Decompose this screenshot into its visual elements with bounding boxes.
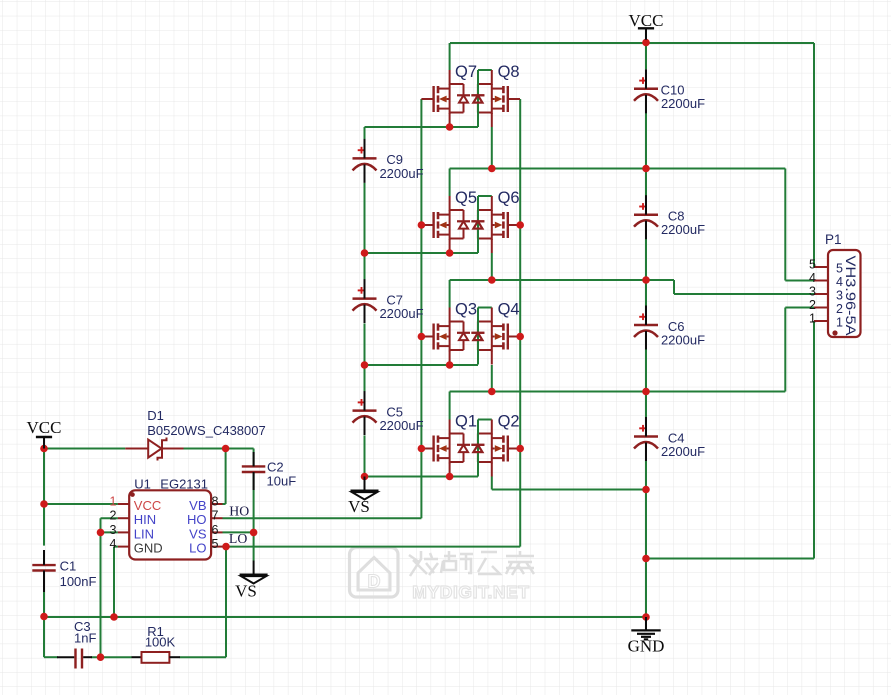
svg-text:5: 5: [836, 262, 843, 276]
wire HIN LIN chain: [100, 518, 102, 657]
wire C9 top lead: [364, 127, 366, 141]
svg-text:4: 4: [836, 275, 843, 289]
svg-text:LIN: LIN: [134, 526, 154, 541]
wire C1 bottom lead: [43, 590, 45, 617]
wire N7 row: [365, 476, 479, 478]
wire P1 pin1 row: [646, 558, 814, 560]
ground GND: [631, 617, 660, 639]
transistor Q8: [471, 70, 520, 127]
svg-text:3: 3: [836, 289, 843, 303]
svg-text:4: 4: [110, 537, 117, 551]
wire N5 to C5: [364, 365, 366, 392]
wire C6 to N6: [645, 350, 647, 392]
wire R1 to LO: [225, 547, 227, 658]
wire C7 to N5: [364, 324, 366, 366]
body diode Q2 overlay: [471, 445, 484, 452]
capacitor C5: [353, 391, 377, 435]
ground VS under C5: [351, 477, 379, 500]
svg-text:VH3.96-5A: VH3.96-5A: [843, 256, 858, 336]
ground VS under C2: [240, 561, 268, 584]
pin 2 stub U1: [118, 517, 129, 519]
wire Q6 bridge drop: [477, 196, 479, 253]
resistor R1: [132, 652, 181, 663]
junction at 44,616.5: [40, 613, 48, 621]
op-amp U1 EG2131 body: [129, 490, 211, 559]
wire Q7 drain riser: [449, 43, 451, 70]
svg-text:10uF: 10uF: [267, 474, 297, 489]
svg-text:VCC: VCC: [629, 11, 664, 30]
wire phase node N1 row: [365, 126, 479, 128]
transistor Q2: [471, 420, 520, 477]
wire LIN pin3: [101, 531, 118, 533]
wire C4 to GND: [645, 461, 647, 617]
wire Q6 src drop: [491, 253, 493, 280]
diode D1: [125, 438, 183, 461]
wire Q1 drain riser: [449, 392, 451, 420]
capacitor C7: [353, 279, 377, 323]
junction at 646,391.5: [642, 388, 650, 396]
svg-text:U1: U1: [134, 477, 151, 492]
svg-text:D: D: [368, 572, 381, 592]
junction at 520.2,225: [516, 221, 524, 229]
svg-text:VS: VS: [189, 526, 207, 541]
svg-text:VCC: VCC: [134, 498, 161, 513]
svg-text:3: 3: [110, 523, 117, 537]
svg-text:MYDIGIT.NET: MYDIGIT.NET: [412, 582, 529, 602]
pin 6 stub U1: [211, 531, 222, 533]
wire N6 row: [450, 391, 786, 393]
transistor Q7: [421, 70, 470, 127]
wire R1 to LO riser: [180, 656, 227, 658]
svg-text:2: 2: [836, 302, 843, 316]
capacitor C9: [353, 139, 377, 183]
junction at 520.2,336.5: [516, 333, 524, 341]
wire P1 pin3 jog: [673, 280, 675, 294]
svg-text:5: 5: [809, 258, 816, 272]
junction at 449.6,476.5: [446, 473, 454, 481]
svg-text:Q4: Q4: [498, 301, 520, 319]
svg-text:Q3: Q3: [455, 301, 477, 319]
svg-text:4: 4: [809, 271, 816, 285]
wire N3 row: [365, 252, 479, 254]
wire VCC to D1 anode: [44, 448, 125, 450]
wire Q2 src drop: [491, 477, 493, 490]
svg-text:Q7: Q7: [455, 63, 477, 81]
VCC symbol left: [36, 437, 52, 449]
VCC symbol top: [638, 28, 654, 40]
junction at 100.5,657.2: [97, 653, 105, 661]
svg-text:2200uF: 2200uF: [379, 166, 423, 181]
wire P1 pin4 col: [784, 169, 786, 281]
pin 2 stub P1: [814, 307, 828, 309]
body diode Q8 overlay: [471, 95, 484, 102]
wire bridge Q4: [478, 307, 492, 309]
junction at 449.6,253: [446, 249, 454, 257]
wire N2 to C8: [645, 169, 647, 196]
junction at 253.6,532.4: [250, 529, 258, 537]
svg-text:LO: LO: [229, 531, 247, 546]
svg-text:C2: C2: [267, 460, 284, 475]
pin 5 stub P1: [814, 266, 828, 268]
svg-text:VB: VB: [189, 498, 206, 513]
junction at 421.4,448.5: [418, 445, 426, 453]
junction at 646,617: [642, 613, 650, 621]
wire VCC col top: [645, 43, 647, 69]
wire HO gate chain: [420, 99, 422, 518]
wire N5 row: [365, 364, 479, 366]
pin 3 stub P1: [814, 293, 828, 295]
wire LO gate chain: [519, 99, 521, 547]
transistor Q3: [421, 308, 470, 365]
svg-text:2200uF: 2200uF: [661, 222, 705, 237]
svg-text:GND: GND: [628, 637, 665, 656]
wire VB jog: [223, 503, 226, 505]
junction at 44,448.5: [40, 445, 48, 453]
svg-text:1: 1: [110, 495, 117, 509]
svg-text:2200uF: 2200uF: [661, 332, 705, 347]
wire N2 row to P1-4: [450, 168, 786, 170]
pin 4 stub P1: [814, 280, 828, 282]
pin 1 stub U1: [118, 503, 129, 505]
wire N6 to C4: [645, 392, 647, 418]
junction at 226,546.6: [222, 543, 230, 551]
wire Q2 bridge drop: [477, 420, 479, 477]
wire Q4 bridge drop: [477, 308, 479, 365]
junction at 520.2,448.5: [516, 445, 524, 453]
svg-text:B0520WS_C438007: B0520WS_C438007: [147, 423, 266, 438]
capacitor C3: [57, 649, 92, 669]
svg-text:Q6: Q6: [498, 189, 520, 207]
junction at 491.8,391.5: [488, 388, 496, 396]
pin 4 stub U1: [118, 546, 129, 548]
wire HIN pin2: [101, 517, 118, 519]
svg-text:5: 5: [212, 537, 219, 551]
wire N4 row: [450, 279, 674, 281]
svg-text:2: 2: [809, 298, 816, 312]
wire LO net: [223, 546, 521, 548]
wire GND bottom rail: [44, 616, 646, 618]
wire bridge Q8: [478, 69, 492, 71]
svg-text:LO: LO: [189, 541, 206, 556]
pin 7 stub U1: [211, 517, 222, 519]
svg-text:P1: P1: [825, 232, 842, 247]
svg-text:VS: VS: [348, 497, 370, 516]
svg-text:C1: C1: [60, 558, 77, 573]
junction at 646,280: [642, 276, 650, 284]
svg-text:2200uF: 2200uF: [379, 306, 423, 321]
svg-text:100K: 100K: [145, 634, 176, 649]
svg-text:1: 1: [809, 312, 816, 326]
svg-text:3: 3: [809, 285, 816, 299]
junction at 44,504: [40, 500, 48, 508]
wire N4 to C6: [645, 280, 647, 306]
junction at 491.8,280: [488, 276, 496, 284]
svg-text:2: 2: [110, 509, 117, 523]
wire P1 pin5 riser: [813, 43, 815, 267]
pin 1 stub P1: [814, 320, 828, 322]
wire Q3 drain riser: [449, 280, 451, 308]
svg-text:7: 7: [212, 509, 219, 523]
capacitor C4: [634, 417, 658, 461]
capacitor C10: [634, 69, 658, 113]
body diode Q4 overlay: [471, 333, 484, 340]
svg-text:Q2: Q2: [498, 413, 520, 431]
svg-text:8: 8: [212, 495, 219, 509]
wire N8 row: [492, 489, 646, 491]
wire N4 to P1 pin3: [674, 293, 814, 295]
junction at 100.5,532.4: [97, 529, 105, 537]
wire VS pin6: [223, 531, 254, 533]
svg-text:HO: HO: [187, 512, 207, 527]
svg-text:Q5: Q5: [455, 189, 477, 207]
pin 3 stub U1: [118, 531, 129, 533]
wire VCC top rail: [450, 42, 814, 44]
junction at 421.4,336.5: [418, 333, 426, 341]
junction at 364.5,365: [361, 361, 369, 369]
svg-text:VCC: VCC: [27, 418, 62, 437]
svg-text:HO: HO: [229, 504, 249, 519]
junction at 364.5,476.5: [361, 473, 369, 481]
wire P1 pin4 lead: [785, 280, 814, 282]
svg-text:2200uF: 2200uF: [661, 444, 705, 459]
capacitor C1: [32, 550, 55, 592]
wire P1 pin1 drop: [813, 321, 815, 559]
wire C9 to N3: [364, 183, 366, 253]
watermark MYDIGIT.NET: [350, 548, 535, 603]
wire HO net: [223, 517, 422, 519]
junction at 646,489.5: [642, 486, 650, 494]
wire Q5 drain riser: [449, 169, 451, 197]
transistor Q1: [421, 420, 470, 477]
wire VCC left col: [43, 449, 45, 546]
pin 5 stub U1: [211, 546, 222, 548]
pin 8 stub U1: [211, 503, 222, 505]
wire Q4 src drop: [491, 365, 493, 392]
wire bridge Q2: [478, 419, 492, 421]
junction at 449.6,127: [446, 123, 454, 131]
svg-text:Q8: Q8: [498, 63, 520, 81]
wire pin4 to GND rail: [113, 547, 115, 617]
junction at 364.5,253: [361, 249, 369, 257]
wire C3 to R1: [91, 656, 132, 658]
svg-text:100nF: 100nF: [60, 574, 97, 589]
wire C3 left row: [44, 656, 58, 658]
svg-text:1nF: 1nF: [74, 631, 96, 646]
body diode Q6 overlay: [471, 221, 484, 228]
junction at 491.8,168.5: [488, 165, 496, 173]
capacitor C8: [634, 195, 658, 239]
wire N3 to C7: [364, 253, 366, 281]
junction at 646,42.5: [642, 39, 650, 47]
svg-text:Q1: Q1: [455, 413, 477, 431]
junction at 646,168.5: [642, 165, 650, 173]
capacitor C2: [242, 452, 265, 490]
wire C10 to N2: [645, 113, 647, 169]
wire C3 down leg: [43, 617, 45, 657]
svg-text:2200uF: 2200uF: [379, 418, 423, 433]
wire bridge Q6: [478, 195, 492, 197]
transistor Q4: [471, 308, 520, 365]
junction at 449.6,365: [446, 361, 454, 369]
junction at 421.4,225: [418, 221, 426, 229]
wire D1 cathode to C2: [184, 448, 254, 450]
wire C5 to N7: [364, 436, 366, 477]
capacitor C6: [634, 306, 658, 350]
wire Q8 bridge drop: [477, 70, 479, 127]
svg-text:1: 1: [836, 316, 843, 330]
wire C8 to N4: [645, 239, 647, 280]
junction at 114,617: [110, 613, 118, 621]
connector P1 body: [828, 250, 861, 337]
svg-text:GND: GND: [134, 541, 163, 556]
junction at 225.6,448.5: [222, 445, 230, 453]
wire C2 to VS: [253, 472, 255, 561]
svg-text:EG2131: EG2131: [160, 477, 208, 492]
wire P1 pin2 lead: [785, 307, 814, 309]
junction at 646,558.5: [642, 555, 650, 563]
svg-text:D1: D1: [147, 408, 164, 423]
wire U1 VCC pin1: [44, 503, 118, 505]
svg-text:HIN: HIN: [134, 512, 156, 527]
wire Q8 src drop: [491, 127, 493, 169]
transistor Q6: [471, 196, 520, 253]
svg-text:6: 6: [212, 523, 219, 537]
wire GND pin4: [114, 546, 118, 548]
wire VB riser: [225, 449, 227, 505]
svg-text:VS: VS: [235, 582, 257, 601]
wire C2 top lead: [253, 449, 255, 467]
wire P1 pin2 col: [784, 308, 786, 392]
transistor Q5: [421, 196, 470, 253]
svg-text:2200uF: 2200uF: [661, 96, 705, 111]
